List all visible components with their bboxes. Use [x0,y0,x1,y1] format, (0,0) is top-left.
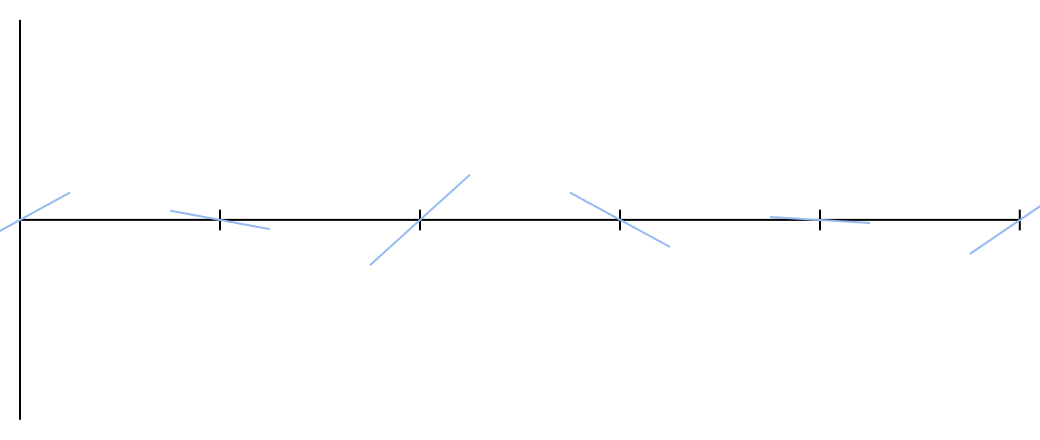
tick 4 [819,210,821,231]
tick 1 [219,210,221,231]
tick 2 [419,210,421,231]
x-axis [20,219,1021,221]
y-axis [19,20,21,420]
tick 3 [619,210,621,231]
slope segment at tick 5 [970,186,1040,254]
tick 5 [1019,210,1021,231]
slope segment at tick 3 [570,193,670,247]
slope segment at tick 2 [370,175,470,266]
slope segment at tick 4 [770,217,870,223]
slope segment at origin [0,193,70,248]
slope segment at tick 1 [170,211,270,230]
